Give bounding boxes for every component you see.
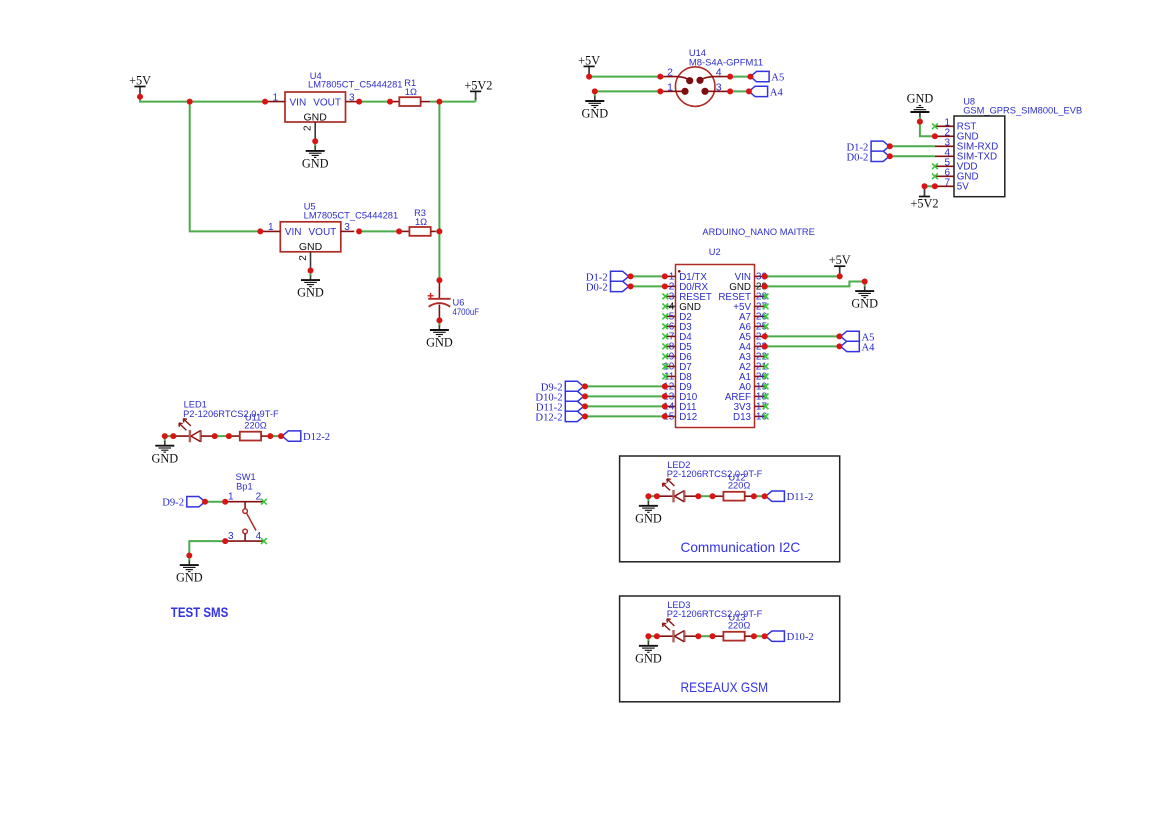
svg-text:5V: 5V [957,182,969,193]
svg-text:D0-2: D0-2 [586,282,608,293]
svg-text:D11-2: D11-2 [787,492,814,503]
svg-text:3: 3 [716,81,722,93]
svg-text:220Ω: 220Ω [728,481,751,491]
svg-text:Communication I2C: Communication I2C [681,539,801,555]
svg-text:D12: D12 [679,412,697,423]
svg-text:LM7805CT_C5444281: LM7805CT_C5444281 [308,80,403,90]
svg-text:GND: GND [635,511,662,525]
svg-text:RESEAUX GSM: RESEAUX GSM [681,679,769,695]
svg-text:1: 1 [228,492,234,503]
svg-text:P2-1206RTCS2.0-9T-F: P2-1206RTCS2.0-9T-F [667,609,763,619]
svg-text:U2: U2 [709,247,721,257]
svg-text:GND: GND [302,157,329,171]
svg-text:VOUT: VOUT [313,97,341,108]
svg-text:+5V: +5V [129,73,151,87]
svg-text:7: 7 [944,177,950,188]
svg-text:M8-S4A-GPFM11: M8-S4A-GPFM11 [689,57,763,67]
svg-text:3: 3 [228,531,234,542]
svg-text:A5: A5 [771,73,784,84]
svg-text:A4: A4 [862,342,876,353]
svg-text:GND: GND [299,241,323,253]
svg-text:2: 2 [256,492,262,503]
svg-text:A4: A4 [770,87,784,98]
svg-text:P2-1206RTCS2.0-9T-F: P2-1206RTCS2.0-9T-F [183,409,279,419]
svg-text:GND: GND [907,91,934,105]
svg-text:GND: GND [635,651,662,665]
svg-text:1: 1 [273,92,279,103]
svg-text:220Ω: 220Ω [244,421,267,431]
svg-text:2: 2 [298,255,309,261]
svg-text:D12-2: D12-2 [535,412,562,423]
svg-text:1: 1 [268,222,274,233]
svg-text:2: 2 [303,125,314,131]
svg-text:1: 1 [667,81,673,93]
svg-text:+5V: +5V [578,53,600,67]
svg-text:4700uF: 4700uF [453,307,480,317]
svg-text:GND: GND [304,111,328,123]
svg-text:3: 3 [349,92,355,103]
svg-text:+5V: +5V [829,253,851,267]
svg-text:1Ω: 1Ω [405,87,417,97]
svg-text:GND: GND [851,297,878,311]
svg-text:LM7805CT_C5444281: LM7805CT_C5444281 [304,211,399,221]
svg-text:D0-2: D0-2 [847,152,869,163]
svg-text:D12-2: D12-2 [303,432,330,443]
svg-text:GND: GND [176,571,203,585]
svg-text:D9-2: D9-2 [162,498,184,509]
svg-text:2: 2 [667,67,673,79]
svg-text:GND: GND [297,286,324,300]
svg-text:P2-1206RTCS2.0-9T-F: P2-1206RTCS2.0-9T-F [667,469,763,479]
svg-text:VOUT: VOUT [309,227,337,238]
svg-text:220Ω: 220Ω [728,621,751,631]
svg-text:VIN: VIN [285,227,302,238]
svg-text:GND: GND [581,107,608,121]
svg-text:ARDUINO_NANO MAITRE: ARDUINO_NANO MAITRE [702,227,814,237]
svg-text:3: 3 [344,222,350,233]
svg-text:U6: U6 [453,298,465,308]
svg-text:D10-2: D10-2 [787,632,814,643]
svg-text:4: 4 [256,531,262,542]
svg-text:1Ω: 1Ω [415,217,427,227]
svg-text:+5V2: +5V2 [464,78,492,92]
svg-text:4: 4 [716,67,722,79]
svg-text:GSM_GPRS_SIM800L_EVB: GSM_GPRS_SIM800L_EVB [963,105,1082,115]
svg-text:VIN: VIN [290,97,307,108]
svg-text:GND: GND [151,451,178,465]
svg-text:GND: GND [426,336,453,350]
svg-text:D13: D13 [733,412,752,423]
svg-text:+5V2: +5V2 [910,197,938,211]
svg-text:TEST SMS: TEST SMS [171,605,229,621]
svg-text:Bp1: Bp1 [236,481,253,491]
